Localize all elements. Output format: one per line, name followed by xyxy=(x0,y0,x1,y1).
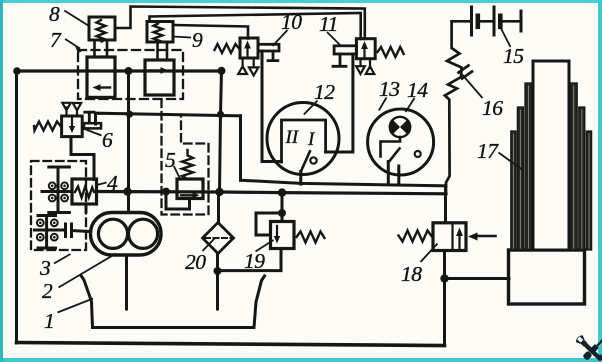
wire: bus drop to valve19 xyxy=(281,193,284,213)
valve 5 spring xyxy=(182,150,193,179)
mechanism 3 lower shaft xyxy=(35,230,91,232)
valve 18 internal check arrow xyxy=(458,233,460,248)
wire: inner top loop valve9 to valve11 xyxy=(150,13,361,39)
valve 6 spring xyxy=(34,122,61,131)
svg-text:9: 9 xyxy=(192,28,203,52)
wire: pressure bus y=192 xyxy=(97,192,447,194)
pipe: filter to tank xyxy=(216,253,219,309)
valve 4 body xyxy=(72,179,97,204)
reservoir 1 xyxy=(81,276,265,328)
mechanism upper cross lever xyxy=(49,167,70,213)
svg-text:13: 13 xyxy=(379,77,400,101)
leader 15 xyxy=(500,26,511,48)
pipe: valve19 inlet xyxy=(281,213,284,222)
battery 15 long plate A xyxy=(470,7,473,35)
node: corner junction at left frame xyxy=(13,67,21,75)
wire: circle13 left stub xyxy=(387,162,390,185)
wire: valve18 outlet down xyxy=(443,251,446,346)
node: junction pump riser on y71 bus xyxy=(125,67,133,75)
svg-text:1: 1 xyxy=(44,309,54,333)
svg-text:6: 6 xyxy=(102,128,113,152)
node: junction riser with pilot line y114 xyxy=(126,111,133,118)
valve 5 dashed enclosure xyxy=(162,100,209,215)
tools watermark icon xyxy=(574,334,602,362)
mechanism 3 lower cross lever xyxy=(38,216,56,249)
valve 5 body xyxy=(177,179,203,199)
valve 6 pilot piston xyxy=(84,123,101,128)
valve 10 pilot piston xyxy=(258,44,279,51)
leader 8 xyxy=(64,11,89,27)
battery 15 wiring xyxy=(452,20,520,23)
pipe: valve19 bypass loop xyxy=(256,213,282,235)
svg-text:12: 12 xyxy=(314,80,335,104)
wire: valve10 signal drop to switch II xyxy=(262,51,282,162)
battery 15 short plate A xyxy=(475,16,480,27)
leader 14 xyxy=(406,98,415,112)
svg-text:18: 18 xyxy=(401,262,422,286)
valve 10 exhaust triangles xyxy=(238,58,258,75)
node: junction bypass of valve5 xyxy=(162,188,170,196)
pump 2 left gear circle xyxy=(98,219,127,248)
svg-text:4: 4 xyxy=(107,171,118,195)
pipe: bus to filter xyxy=(217,192,220,223)
valve 5 internal arrow xyxy=(181,194,196,196)
svg-text:3: 3 xyxy=(39,256,50,280)
wire: pilot line y=114 from valve6 to corner xyxy=(96,113,241,124)
mechanism upper shaft into valve4 xyxy=(42,190,72,193)
wire: left frame vertical xyxy=(15,71,18,344)
leader 10 xyxy=(273,30,288,46)
valve 6 body xyxy=(62,116,83,137)
filter 20 diamond xyxy=(203,223,234,254)
wire: battery down through switch 16 xyxy=(445,21,462,194)
valve 8 spring xyxy=(97,20,106,42)
pilot valve 8 box xyxy=(89,17,115,40)
leader 20 xyxy=(203,239,215,252)
valve 11 internal up arrow xyxy=(363,46,365,57)
leader lines xyxy=(54,11,522,313)
mechanism 3 clutch bars xyxy=(66,224,72,237)
valve 9 pilot stems xyxy=(158,42,168,60)
instrument circle 12 xyxy=(267,103,339,175)
node: junction valve19 riser xyxy=(278,188,286,196)
pipe: pump suction into tank xyxy=(125,256,128,310)
leader 11 xyxy=(327,32,342,47)
valve 18 spring xyxy=(399,231,432,242)
svg-text:16: 16 xyxy=(482,96,503,120)
leader 2 xyxy=(59,254,117,288)
wire: valve11 signal drop to switch I xyxy=(326,54,353,152)
valve 11 spring xyxy=(378,47,404,57)
valve 10 body xyxy=(240,38,258,58)
leader 19 xyxy=(256,240,274,252)
svg-text:15: 15 xyxy=(503,44,524,68)
valve 19 internal arrow xyxy=(276,226,278,238)
svg-text:II: II xyxy=(285,127,300,148)
teal page border xyxy=(0,0,602,3)
battery 15 long plate B xyxy=(493,7,496,35)
valve 9 body xyxy=(145,60,174,95)
switch contact circle in 12 xyxy=(310,157,316,163)
valve 4 bottom stub xyxy=(85,204,88,212)
valve 7 body xyxy=(87,57,115,97)
node: junction cylinder feed xyxy=(440,274,448,282)
valve 8 pilot stems xyxy=(95,40,108,57)
svg-text:11: 11 xyxy=(319,12,338,36)
node: junction valve19 bypass xyxy=(278,209,286,217)
leader 1 xyxy=(58,299,94,313)
leader 6 xyxy=(82,128,102,136)
pump 2 xyxy=(91,213,162,256)
svg-text:14: 14 xyxy=(407,78,428,102)
battery 15 short plate B xyxy=(498,16,503,27)
node: junction x220 with bus y192 xyxy=(215,188,223,196)
wire: signal line y=184 to right junction xyxy=(241,180,447,186)
valve 10 spring xyxy=(215,44,240,53)
wire: corner drop to signal line xyxy=(239,116,242,180)
wire: drop line x=221 from y71 to bus xyxy=(220,71,222,192)
leader 5 xyxy=(174,166,181,181)
svg-text:20: 20 xyxy=(185,250,206,274)
node: junction x221 with pilot line y114 xyxy=(217,111,224,118)
wire: supply bus y=71 xyxy=(17,69,222,72)
wire: outer top loop valve8 to valve11 xyxy=(115,7,365,40)
mechanism 3 detent circles xyxy=(37,219,58,240)
valve 18 body xyxy=(433,223,466,251)
pipe: valve19 return xyxy=(218,249,282,271)
valve 10 piston stem xyxy=(268,51,278,61)
pipe: feed to telescopic cylinder xyxy=(445,277,510,280)
filter 20 element dashed xyxy=(205,237,231,239)
wire: bus corner down to valve18 xyxy=(444,186,447,223)
wire: circle12 bottom stub xyxy=(299,172,302,185)
lamp 14 outline xyxy=(390,117,410,137)
component number labels xyxy=(39,2,524,333)
leader 17 xyxy=(499,153,523,170)
wire: pilot from valve9 to valve10 xyxy=(174,25,249,39)
mechanism upper detent circles xyxy=(49,182,68,201)
svg-text:8: 8 xyxy=(49,2,60,26)
valve 18 internal divider xyxy=(451,223,453,251)
leader 12 xyxy=(304,101,318,115)
valve 19 body xyxy=(271,222,295,249)
telescopic cylinder 17 outer barrel xyxy=(509,250,585,304)
svg-text:17: 17 xyxy=(477,139,499,163)
leader 4 xyxy=(96,183,107,186)
valve 7 internal left arrow xyxy=(98,86,110,88)
pipe: valve6 drain to box4 xyxy=(71,137,94,180)
cylinder 17 left sleeve stages xyxy=(511,83,532,250)
valve 4 spring xyxy=(75,187,94,198)
lamp 14 white cross wedges xyxy=(393,116,408,138)
node: junction right end of y71 bus xyxy=(218,67,226,75)
leader 13 xyxy=(379,98,387,111)
cylinder 17 rod stage xyxy=(533,61,569,250)
battery 15 end terminal xyxy=(520,11,523,31)
valve 9 spring xyxy=(154,24,163,42)
node: junction riser with pressure bus y191 xyxy=(123,187,131,195)
valve 6 exhaust triangles xyxy=(62,103,81,116)
svg-text:19: 19 xyxy=(244,249,265,273)
valve 5 bypass loop xyxy=(166,192,190,210)
valve 6 internal down arrow xyxy=(71,119,73,129)
lamp 14 black disc xyxy=(390,117,410,137)
pilot valve 9 box xyxy=(147,22,173,43)
instrument circle 13 xyxy=(368,109,434,175)
leader 18 xyxy=(421,244,438,263)
pump 2 right gear circle xyxy=(128,219,157,248)
wire: circle13 right stub xyxy=(397,166,400,185)
leader 16 xyxy=(461,73,483,98)
mechanism 3 dashed enclosure xyxy=(31,161,86,250)
svg-text:10: 10 xyxy=(281,10,302,34)
valve 10 internal up arrow xyxy=(246,45,248,56)
switch lever in 13 xyxy=(388,149,399,163)
leader 7 with arrowhead xyxy=(65,39,80,49)
svg-text:5: 5 xyxy=(165,148,176,172)
valve 9 internal right arrow xyxy=(150,69,163,71)
wire: pump riser x=128.5 xyxy=(127,71,130,213)
switch 16 contact bars xyxy=(459,66,473,79)
valve 18 manual input arrow xyxy=(474,235,496,238)
svg-text:2: 2 xyxy=(42,279,53,303)
switch contact circle in 13 xyxy=(415,151,421,157)
node: junction filter line with valve19 return xyxy=(214,267,222,275)
leader 3 xyxy=(54,254,71,264)
dashed enclosure 7 xyxy=(78,50,183,99)
switch frame in 12 xyxy=(282,120,326,162)
valve 11 exhaust triangles xyxy=(356,59,374,74)
leader 9 xyxy=(172,37,192,38)
switch hook in 13 xyxy=(381,137,401,157)
cylinder 17 sleeve hatching streaks xyxy=(513,86,589,248)
wire: bottom frame line xyxy=(17,343,445,346)
switch lever in 12 xyxy=(301,151,310,171)
valve 19 spring xyxy=(297,232,325,243)
svg-text:7: 7 xyxy=(50,28,62,52)
cylinder 17 right sleeve stages xyxy=(570,83,591,250)
valve 6 piston stem xyxy=(85,112,94,123)
valve 11 piston stem xyxy=(333,54,346,66)
valve 11 pilot piston xyxy=(334,46,356,54)
valve 11 body xyxy=(356,39,375,59)
